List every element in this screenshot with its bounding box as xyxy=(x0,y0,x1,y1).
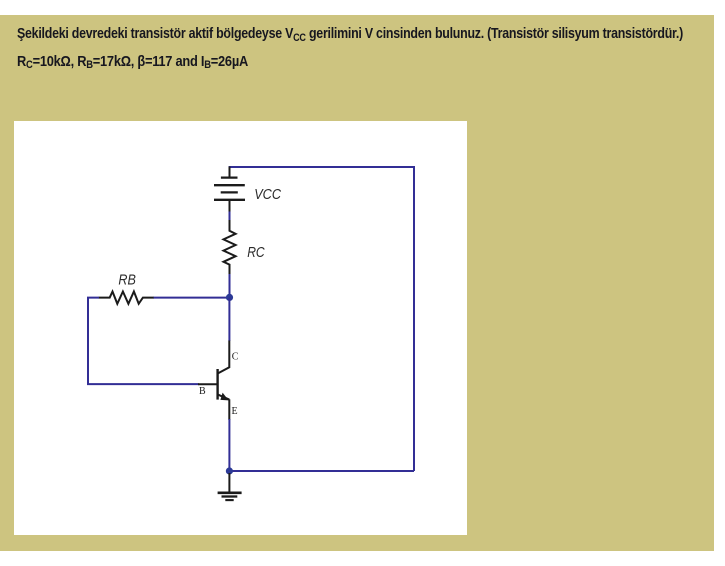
wire: ground stub xyxy=(228,473,230,492)
resistor RB xyxy=(99,292,154,304)
svg-text:VCC: VCC xyxy=(254,186,281,203)
battery VCC xyxy=(214,167,245,213)
wire: RB left leg down and along bottom to base xyxy=(88,298,199,385)
wire: base node to RB right end xyxy=(153,297,230,299)
white schematic canvas xyxy=(14,121,467,535)
problem statement line 1 xyxy=(17,25,683,42)
wire: emitter down to bottom node xyxy=(228,419,230,471)
problem statement line 2 xyxy=(17,53,248,70)
svg-text:C: C xyxy=(232,352,239,363)
svg-text:RC: RC xyxy=(247,244,265,261)
svg-text:B: B xyxy=(199,386,206,397)
ground xyxy=(218,493,242,500)
junction node: emitter / ground / bottom rail xyxy=(226,467,233,474)
wire: RC to base node xyxy=(229,274,231,298)
wire: battery to RC xyxy=(229,212,231,222)
svg-text:RB: RB xyxy=(118,272,135,289)
junction node: RB / RC / collector xyxy=(226,294,233,301)
svg-text:E: E xyxy=(232,406,238,417)
wire: bottom rail xyxy=(229,470,414,472)
wire: node down to collector xyxy=(228,298,230,341)
wire: right rail xyxy=(413,166,415,471)
wire: top rail from battery top to right rail xyxy=(229,166,414,168)
resistor RC xyxy=(224,220,236,275)
transistor Q1 (NPN) xyxy=(198,341,229,421)
